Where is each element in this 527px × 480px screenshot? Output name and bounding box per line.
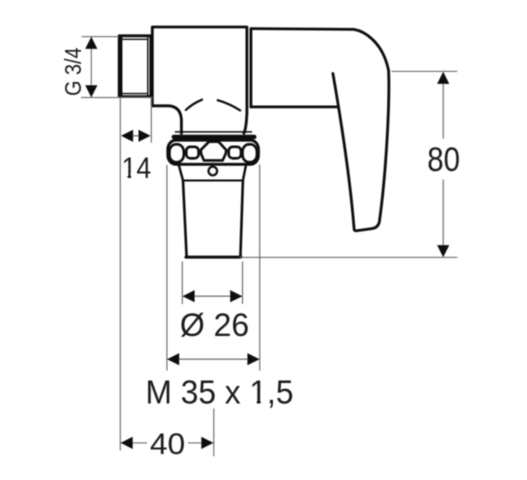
40 arrow right — [201, 437, 213, 449]
arrowheads — [85, 37, 449, 449]
svg-text:40: 40 — [150, 428, 185, 461]
neck below nut left — [179, 164, 184, 181]
outlet centreline extension — [213, 409, 215, 457]
cylinder top line — [183, 180, 243, 182]
svg-text:80: 80 — [427, 141, 460, 179]
diameter 26 extension lines — [182, 262, 242, 305]
14 arrow right — [139, 130, 151, 142]
d26 arrow left — [183, 290, 195, 302]
thread nipple G3/4 outer — [119, 36, 151, 97]
stem between nut and circle — [212, 164, 214, 166]
body bottom-left step — [152, 106, 181, 134]
G3/4 arrow up — [85, 37, 97, 49]
40 dimension line — [121, 442, 213, 444]
80 arrow down — [437, 245, 449, 257]
nut right end facet — [243, 144, 257, 162]
nut left end facet — [169, 144, 183, 162]
80 arrow up — [437, 72, 449, 84]
G3/4 dimension line — [90, 37, 92, 97]
svg-text:M 35 x 1,5: M 35 x 1,5 — [146, 374, 294, 411]
valve body block — [152, 27, 247, 106]
thread nipple thick left face — [119, 38, 122, 96]
14 left / 40 left extension line — [119, 98, 121, 451]
hex nut outline — [168, 140, 259, 164]
nut right inner facet — [229, 147, 241, 159]
G3/4 arrow down — [85, 85, 97, 97]
80 bottom extension line — [240, 256, 458, 258]
svg-text:G 3/4: G 3/4 — [60, 47, 86, 95]
washer thin line above nut — [176, 131, 252, 133]
thread nipple inner crest lines — [122, 37, 148, 96]
M35 arrow right — [247, 353, 259, 365]
neck below nut right — [243, 164, 246, 181]
14 dimension line — [124, 135, 148, 137]
80 dimension line — [442, 72, 444, 256]
M35 extension lines — [167, 165, 260, 371]
M35 arrow left — [167, 353, 179, 365]
80 top extension line — [392, 70, 458, 72]
14 arrow left — [121, 130, 133, 142]
hub bottom edge — [251, 106, 337, 109]
serif masks for digit 1 — [122, 174, 266, 404]
G3/4 top extension line — [82, 36, 119, 38]
body right neck down to nut — [244, 105, 247, 133]
M35 dimension line — [168, 358, 260, 360]
svg-text:Ø 26: Ø 26 — [180, 307, 249, 343]
nut centre hexagon facet — [201, 142, 226, 161]
G3/4 bottom extension line — [81, 97, 153, 99]
40 arrow left — [121, 437, 133, 449]
waist dash right — [218, 100, 241, 110]
outlet cylinder bottom — [186, 256, 241, 259]
washer band above nut — [174, 135, 255, 139]
small circle below nut — [209, 167, 218, 176]
handle hub and lever — [251, 29, 389, 231]
svg-text:14: 14 — [122, 152, 152, 185]
outlet cylinder sides — [183, 181, 243, 257]
waist dash left — [186, 100, 202, 110]
diameter 26 dimension line — [183, 295, 242, 297]
dimension thin lines — [81, 37, 457, 457]
d26 arrow right — [230, 290, 242, 302]
14 right extension line — [150, 98, 152, 143]
nut left inner facet — [186, 147, 198, 159]
